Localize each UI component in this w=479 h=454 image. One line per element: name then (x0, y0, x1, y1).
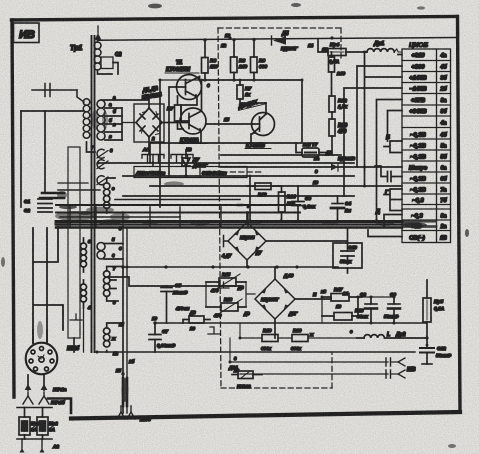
transistor T3 (245, 113, 275, 150)
resistor R4 under fuse (329, 52, 346, 96)
feed to row 15 (384, 215, 402, 227)
winding group g5 (104, 267, 241, 302)
winding group g4 (97, 237, 123, 259)
round connector Ш1 (26, 343, 80, 375)
chassis cap marks near screen bottom (70, 314, 82, 320)
resistor R17 (322, 287, 362, 309)
bottom plug forks Ш5б (117, 406, 152, 423)
winding group g6 (bottom) (104, 323, 121, 352)
node group above bridge1 (248, 175, 352, 223)
electrostatic screen (tall thin rect) (68, 147, 80, 352)
capacitor C9e electrolytic (384, 292, 400, 323)
fuse Pr2 (37, 408, 58, 440)
winding group g3 (with label Г) (104, 178, 116, 213)
slanted label Д2-Д4 (237, 98, 266, 111)
resistor R14 vertical (279, 192, 286, 212)
primary winding W1 (21, 84, 95, 153)
resistor R6 (202, 40, 218, 80)
left-side lower winding (81, 238, 87, 308)
resistor R10 vertical right lower (329, 119, 347, 155)
nested L feeds (357, 66, 402, 167)
resistor R12 vertical right (329, 96, 348, 119)
wire T1 base feedback (169, 87, 177, 176)
capacitor C10 box (333, 228, 362, 273)
resistor R8 (231, 40, 248, 80)
capacitor C12 (420, 345, 451, 364)
cap into Минус row (375, 166, 402, 182)
resistors R19 R20 on rail y338 (261, 328, 278, 351)
caps C1 C2 stack (38, 199, 52, 204)
transformer core (92, 36, 95, 352)
node labels small (143, 33, 328, 185)
secondary winding group g1 (top) (94, 38, 112, 74)
resistor R21 small (175, 306, 210, 331)
rectifier bridge D1-D4 box (101, 100, 189, 155)
stab VM T7 box (296, 142, 326, 157)
diode D6 on wire (325, 150, 356, 171)
connector to plug wires (33, 330, 47, 343)
resistor R18 (322, 297, 364, 320)
label D1,D2 КЦ402Б (140, 85, 162, 101)
rectifier bridge D8-D11 (КЦ405Т) (237, 267, 331, 338)
table row texts (409, 53, 447, 242)
capacitor C7 (149, 323, 176, 352)
node junction dots (200, 38, 256, 82)
winding taps into bridge (122, 122, 136, 124)
secondary winding group g2 (97, 100, 122, 140)
chassis tick marks (208, 327, 220, 334)
thermistor R16 (206, 297, 246, 318)
dashed enclosure (stabilizer module) (218, 28, 341, 388)
resistor R7 vertical mid (167, 96, 183, 129)
output forks ШВ (391, 358, 416, 378)
winding bracket to rows 8,9,10 (384, 141, 402, 153)
band junction smudges (70, 207, 248, 227)
CB(-) row feed (368, 230, 402, 237)
connector mating bars (386, 358, 391, 378)
diode D5 on top wire (272, 31, 298, 51)
thyristor D14 bottom mid (228, 365, 262, 389)
rectifier bridge D6-D9 (КЦ405) (221, 212, 348, 267)
long rail y267 (123, 228, 127, 267)
wires from band down to connector (33, 227, 63, 343)
fuse Pr4 (318, 39, 367, 65)
top supply rail (98, 38, 456, 41)
switch contacts B1 (curls) (91, 145, 113, 185)
choke Dr1 (367, 41, 402, 55)
dark horizontal bus band (middle) (40, 183, 402, 228)
connector table XS1 (402, 42, 451, 243)
arrow onto core top (95, 33, 102, 40)
fuse Pr5 vertical (423, 280, 445, 345)
choke Dr2 (357, 332, 427, 338)
capacitor C4 right (332, 203, 343, 205)
wire ladder (center horizontal rails) (150, 143, 266, 163)
left input column wires (21, 111, 52, 213)
diode D7 (down triangle) (182, 150, 208, 176)
resistor R9 (251, 40, 268, 80)
choke Dr1 to row1 (398, 54, 402, 56)
transistor T1 (165, 60, 202, 100)
transistor T2 (179, 108, 207, 144)
rails to output plug (230, 362, 388, 374)
dark smudged row 16 of table (403, 222, 436, 227)
voltage selector bars (142, 147, 193, 165)
resistor R13 horizontal (255, 183, 271, 190)
bold lower pair (123, 378, 127, 406)
long rail y323 (155, 322, 427, 324)
tap pin labels (87, 95, 353, 373)
fuse Pr1 (17, 408, 52, 440)
capacitor C5 (161, 283, 188, 323)
corner stamp box ИВ (14, 23, 40, 43)
selector label boxes (134, 167, 247, 178)
thermistor R15 (206, 272, 246, 293)
mains plug arrows (23, 384, 67, 406)
resistor R7 (237, 80, 266, 103)
capacitor C9v (292, 202, 304, 206)
long rail y352 (97, 351, 415, 353)
winding bracket to rows 12,13,14 (384, 189, 402, 211)
wires feeding table rows from circuit (344, 51, 402, 237)
interwinding shield cap box (101, 52, 122, 74)
capacitor C8 electrolytic (357, 292, 377, 323)
